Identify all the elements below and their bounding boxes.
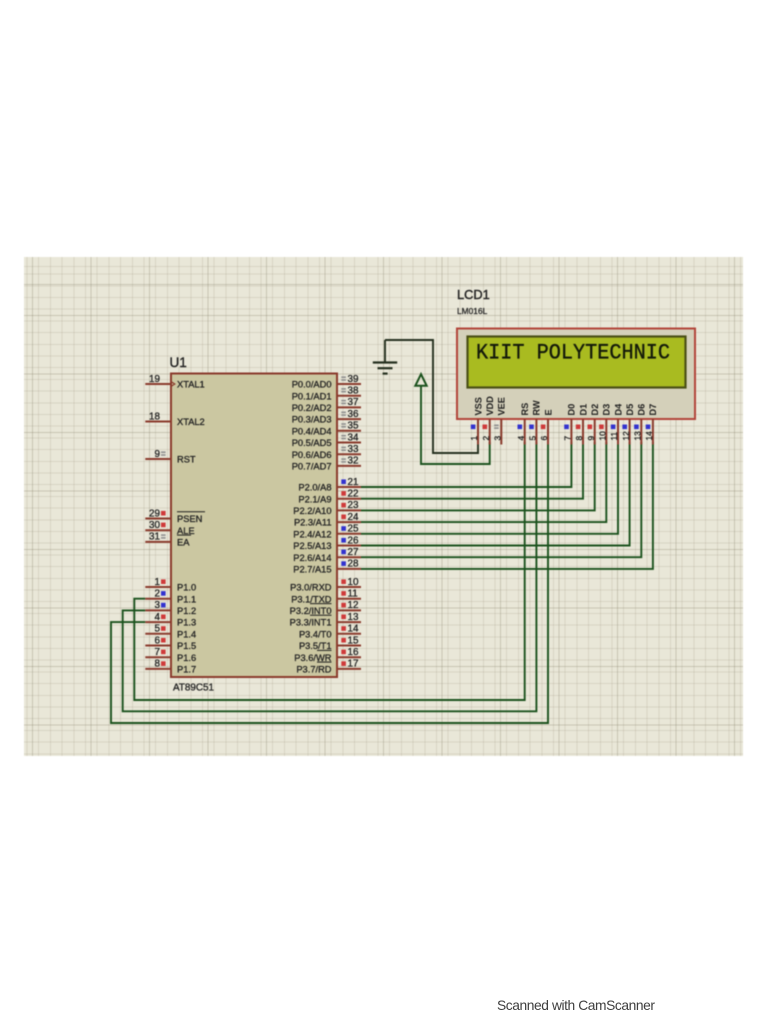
wire: D0 net (P2.0 to LCD pin 7)	[361, 442, 571, 487]
label P2.2/A10	[293, 506, 331, 516]
svg-text:P1.0: P1.0	[177, 583, 196, 593]
pin 27 P2.6	[337, 547, 361, 558]
label P2.0/A8	[298, 483, 331, 493]
LCD pin 2 VDD	[481, 396, 495, 445]
pin 18 XTAL2	[145, 411, 171, 422]
svg-text:1: 1	[469, 436, 479, 441]
label P1.6	[177, 653, 196, 663]
pin 5 P1.4	[145, 624, 171, 635]
svg-text:9: 9	[586, 436, 596, 441]
svg-text:25: 25	[348, 524, 359, 535]
LCD pin 13 D6	[633, 404, 647, 445]
pin 36 P0.3	[337, 409, 361, 420]
svg-text:PSEN: PSEN	[177, 514, 202, 524]
svg-text:17: 17	[348, 659, 359, 670]
IC U1 body	[171, 374, 337, 678]
svg-text:4: 4	[516, 436, 526, 441]
svg-text:16: 16	[348, 647, 359, 658]
wire: D6 net (P2.6 to LCD pin 13)	[361, 442, 641, 557]
svg-text:P0.1/AD1: P0.1/AD1	[292, 391, 332, 401]
svg-text:29: 29	[149, 508, 160, 519]
svg-text:P2.2/A10: P2.2/A10	[293, 506, 331, 516]
wire: RS (P1.1 to LCD pin 4)	[134, 442, 524, 700]
svg-text:P2.4/A12: P2.4/A12	[293, 529, 331, 539]
svg-text:P3.2/INT0: P3.2/INT0	[290, 606, 332, 616]
label P2.3/A11	[294, 518, 332, 528]
svg-text:LM016L: LM016L	[457, 306, 488, 316]
svg-text:6: 6	[539, 436, 549, 441]
pin 28 P2.7	[337, 559, 361, 570]
XTAL1 clock marker	[171, 381, 175, 387]
svg-text:P3.3/INT1: P3.3/INT1	[290, 618, 332, 628]
pin 12 P3.2	[337, 600, 361, 611]
pin 17 P3.7	[337, 659, 361, 670]
svg-text:D3: D3	[602, 404, 612, 416]
svg-text:P2.6/A14: P2.6/A14	[293, 553, 331, 563]
label P1.3	[177, 618, 196, 628]
svg-text:D2: D2	[590, 404, 600, 416]
label P0.6/AD6	[292, 450, 332, 460]
svg-text:ALE: ALE	[177, 526, 195, 536]
pin 32 P0.7	[337, 456, 361, 467]
pin 2 P1.1	[145, 589, 171, 600]
label P1.0	[177, 583, 196, 593]
LCD pin 12 D5	[621, 404, 635, 445]
svg-text:RST: RST	[177, 455, 196, 465]
label P2.1/A9	[298, 494, 331, 504]
LCD pin 6 E	[539, 409, 553, 444]
svg-text:D7: D7	[648, 404, 658, 416]
wire: VDD net from LCD pin 2 to power terminal	[421, 386, 490, 464]
svg-text:P2.1/A9: P2.1/A9	[298, 494, 331, 504]
label P2.5/A13	[293, 541, 331, 551]
svg-text:13: 13	[633, 431, 643, 441]
power terminal (VDD arrow)	[415, 374, 426, 386]
svg-text:U1: U1	[170, 355, 187, 370]
pin 11 P3.1	[337, 589, 361, 600]
label P1.5	[177, 641, 196, 651]
svg-text:3: 3	[493, 436, 503, 441]
svg-text:P3.7/RD: P3.7/RD	[296, 665, 331, 675]
svg-text:P3.1/TXD: P3.1/TXD	[291, 594, 332, 604]
pin 15 P3.5	[337, 635, 361, 646]
pin 19 XTAL1	[145, 374, 171, 385]
svg-text:10: 10	[348, 577, 359, 588]
svg-text:14: 14	[348, 624, 359, 635]
svg-text:35: 35	[348, 421, 359, 432]
svg-text:32: 32	[348, 456, 359, 467]
svg-text:31: 31	[149, 532, 160, 543]
svg-text:EA: EA	[177, 538, 190, 548]
pin 3 P1.2	[145, 600, 171, 611]
svg-text:37: 37	[348, 397, 359, 408]
wire: D4 net (P2.4 to LCD pin 11)	[361, 442, 618, 534]
pin 29 PSEN	[145, 508, 171, 519]
svg-text:22: 22	[348, 489, 359, 500]
svg-text:9: 9	[155, 449, 161, 460]
label P1.2	[177, 606, 196, 616]
label PSEN	[177, 512, 205, 524]
svg-text:27: 27	[348, 547, 359, 558]
LCD pin 7 D0	[563, 404, 577, 445]
pin 39 P0.0	[337, 374, 361, 385]
svg-text:P3.5/T1: P3.5/T1	[299, 641, 332, 651]
svg-text:P0.7/AD7: P0.7/AD7	[292, 462, 332, 472]
label P3.2/INT0	[290, 604, 332, 616]
svg-text:VSS: VSS	[473, 397, 483, 415]
svg-text:18: 18	[149, 411, 160, 422]
svg-text:KIIT POLYTECHNIC: KIIT POLYTECHNIC	[476, 341, 670, 366]
svg-text:P1.1: P1.1	[177, 594, 196, 604]
svg-text:P1.6: P1.6	[177, 653, 196, 663]
svg-text:P1.4: P1.4	[177, 629, 196, 639]
svg-text:D6: D6	[637, 404, 647, 416]
pin 38 P0.1	[337, 386, 361, 397]
svg-text:4: 4	[155, 612, 161, 623]
svg-text:12: 12	[621, 431, 631, 441]
svg-text:VDD: VDD	[485, 396, 495, 416]
svg-text:P2.0/A8: P2.0/A8	[298, 483, 331, 493]
LCD pin 1 VSS	[469, 397, 483, 444]
LCD pin 8 D1	[574, 404, 588, 445]
svg-text:23: 23	[348, 500, 359, 511]
label P3.6/WR	[294, 650, 331, 662]
LCD pin 5 RW	[528, 400, 542, 444]
pin 35 P0.4	[337, 421, 361, 432]
svg-text:39: 39	[348, 374, 359, 385]
wire: D3 net (P2.3 to LCD pin 10)	[361, 442, 606, 522]
svg-text:VEE: VEE	[497, 397, 507, 415]
label P3.5/T1	[299, 641, 332, 651]
pin 37 P0.2	[337, 397, 361, 408]
svg-text:21: 21	[348, 477, 359, 488]
label P3.4/T0	[299, 629, 332, 639]
pin 22 P2.1	[337, 489, 361, 500]
svg-text:P0.2/AD2: P0.2/AD2	[292, 403, 332, 413]
label EA	[177, 535, 191, 547]
pin 30 ALE	[145, 520, 171, 531]
label P3.7/RD	[296, 662, 331, 674]
svg-text:11: 11	[609, 431, 619, 440]
svg-text:P0.6/AD6: P0.6/AD6	[292, 450, 332, 460]
pin 1 P1.0	[145, 577, 171, 588]
LCD LCD1 body	[457, 329, 695, 420]
svg-text:19: 19	[149, 374, 160, 385]
label P2.6/A14	[293, 553, 331, 563]
pin 14 P3.4	[337, 624, 361, 635]
svg-text:2: 2	[155, 589, 161, 600]
wire: D1 net (P2.1 to LCD pin 8)	[361, 442, 583, 499]
label XTAL1	[177, 380, 205, 390]
svg-text:P3.6/WR: P3.6/WR	[294, 653, 331, 663]
svg-text:14: 14	[644, 431, 654, 441]
svg-text:33: 33	[348, 444, 359, 455]
svg-text:1: 1	[155, 577, 161, 588]
LCD pin 9 D2	[586, 404, 600, 445]
svg-text:D4: D4	[613, 403, 623, 416]
svg-text:34: 34	[348, 432, 359, 443]
pin 26 P2.5	[337, 535, 361, 546]
label XTAL2	[177, 417, 205, 427]
ground	[373, 340, 397, 374]
svg-text:P2.7/A15: P2.7/A15	[293, 565, 331, 575]
svg-text:RW: RW	[532, 400, 542, 415]
svg-text:P1.5: P1.5	[177, 641, 196, 651]
LCD pin 11 D4	[609, 403, 623, 445]
svg-text:12: 12	[348, 600, 359, 611]
pin 31 EA	[145, 532, 171, 543]
svg-text:D5: D5	[625, 404, 635, 416]
svg-text:D0: D0	[567, 404, 577, 416]
svg-text:6: 6	[155, 635, 161, 646]
LCD pin 4 RS	[516, 403, 530, 445]
svg-text:38: 38	[348, 386, 359, 397]
pin 24 P2.3	[337, 512, 361, 523]
pin 10 P3.0	[337, 577, 361, 588]
svg-text:P2.5/A13: P2.5/A13	[293, 541, 331, 551]
svg-text:XTAL1: XTAL1	[177, 380, 205, 390]
LCD pin 10 D3	[598, 404, 612, 445]
label RST	[177, 455, 196, 465]
svg-text:P0.0/AD0: P0.0/AD0	[292, 380, 332, 390]
svg-text:15: 15	[348, 635, 359, 646]
label P0.7/AD7	[292, 462, 332, 472]
label P3.0/RXD	[290, 583, 332, 593]
label P2.4/A12	[293, 529, 331, 539]
svg-text:RS: RS	[520, 403, 530, 416]
CamScanner footer	[0, 0, 768, 1]
label P0.1/AD1	[292, 391, 332, 401]
LCD pin 14 D7	[644, 404, 658, 445]
svg-text:P0.5/AD5: P0.5/AD5	[292, 438, 332, 448]
label P0.0/AD0	[292, 380, 332, 390]
svg-text:P2.3/A11: P2.3/A11	[294, 518, 332, 528]
wire: D7 net (P2.7 to LCD pin 14)	[361, 442, 653, 569]
svg-text:P3.4/T0: P3.4/T0	[299, 629, 332, 639]
svg-text:36: 36	[348, 409, 359, 420]
svg-text:P1.3: P1.3	[177, 618, 196, 628]
label P0.4/AD4	[292, 426, 332, 436]
svg-text:P0.4/AD4: P0.4/AD4	[292, 426, 332, 436]
pin 21 P2.0	[337, 477, 361, 488]
svg-text:11: 11	[348, 589, 359, 600]
LCD pin 3 VEE	[493, 397, 507, 444]
LCD screen	[468, 337, 686, 388]
svg-text:3: 3	[155, 600, 161, 611]
wire: VSS net from LCD pin 1 to ground	[385, 340, 478, 453]
svg-text:8: 8	[574, 436, 584, 441]
pin 8 P1.7	[145, 659, 171, 670]
label P2.7/A15	[293, 565, 331, 575]
svg-text:XTAL2: XTAL2	[177, 417, 205, 427]
svg-text:E: E	[543, 409, 553, 415]
pin 33 P0.6	[337, 444, 361, 455]
svg-text:24: 24	[348, 512, 359, 523]
svg-text:28: 28	[348, 559, 359, 570]
label ALE	[177, 526, 195, 536]
svg-text:LCD1: LCD1	[457, 287, 490, 302]
svg-text:AT89C51: AT89C51	[173, 683, 214, 694]
svg-text:2: 2	[481, 436, 491, 441]
wire: RW (P1.2 to LCD pin 5)	[123, 442, 537, 711]
label P0.2/AD2	[292, 403, 332, 413]
svg-text:7: 7	[155, 647, 161, 658]
wire: D2 net (P2.2 to LCD pin 9)	[361, 442, 595, 510]
svg-text:10: 10	[598, 431, 608, 441]
label P1.1	[177, 594, 196, 604]
pin 7 P1.6	[145, 647, 171, 658]
svg-text:5: 5	[528, 436, 538, 441]
pin 16 P3.6	[337, 647, 361, 658]
wire: D5 net (P2.5 to LCD pin 12)	[361, 442, 630, 546]
label P0.3/AD3	[292, 415, 332, 425]
pin 25 P2.4	[337, 524, 361, 535]
wire: E (P1.3 to LCD pin 6)	[111, 442, 548, 723]
pin 6 P1.5	[145, 635, 171, 646]
label P3.3/INT1	[290, 615, 332, 627]
label P1.4	[177, 629, 196, 639]
svg-text:26: 26	[348, 535, 359, 546]
label P1.7	[177, 665, 196, 675]
svg-text:30: 30	[149, 520, 160, 531]
svg-text:P1.7: P1.7	[177, 665, 196, 675]
svg-text:P0.3/AD3: P0.3/AD3	[292, 415, 332, 425]
svg-text:13: 13	[348, 612, 359, 623]
svg-text:P1.2: P1.2	[177, 606, 196, 616]
pin 34 P0.5	[337, 432, 361, 443]
svg-text:5: 5	[155, 624, 161, 635]
svg-text:8: 8	[155, 659, 161, 670]
pin 9 RST	[145, 449, 171, 460]
svg-text:D1: D1	[578, 404, 588, 416]
label P0.5/AD5	[292, 438, 332, 448]
svg-text:7: 7	[563, 436, 573, 441]
pin 13 P3.3	[337, 612, 361, 623]
svg-text:P3.0/RXD: P3.0/RXD	[290, 583, 332, 593]
pin 4 P1.3	[145, 612, 171, 623]
label P3.1/TXD	[291, 594, 332, 604]
pin 23 P2.2	[337, 500, 361, 511]
